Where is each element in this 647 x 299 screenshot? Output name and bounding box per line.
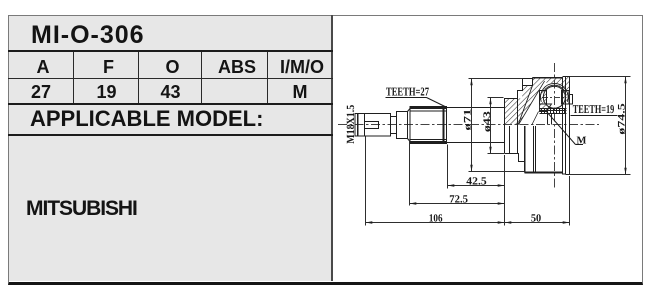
dim line 72.5 (410, 203, 505, 205)
ext line x447.5 (447, 145, 449, 189)
TEETH=27 underline (386, 97, 427, 99)
race track arc (541, 83, 569, 101)
hatch: bell back wall band and top wall (518, 78, 562, 125)
stub center hole (365, 122, 379, 129)
chamfer ring to spline top (408, 109, 411, 112)
TEETH=19 underline (571, 115, 618, 117)
ball horizontal centerline (542, 97, 567, 99)
spline end double line (443, 106, 445, 144)
bell bottom edge (525, 172, 563, 174)
dim line dia43 (490, 98, 492, 154)
hatch: flange dia43 section (504, 98, 517, 124)
svg-text:TEETH=19: TEETH=19 (573, 102, 614, 116)
ext dia74.5 bottom (570, 174, 631, 176)
dim line dia71 (471, 79, 473, 172)
dim line 106 (366, 222, 505, 224)
svg-text:72.5: 72.5 (449, 194, 468, 206)
arrows dia43 (489, 98, 491, 105)
APPLICABLE MODEL: (30, 108, 263, 130)
bell top edge (533, 77, 563, 79)
spline teeth ticks (542, 109, 565, 114)
cavity slope edge (518, 86, 532, 125)
value 43 (139, 83, 202, 101)
header I/M/O (270, 58, 334, 76)
horizontal centerline (338, 124, 599, 126)
lower exterior profile (505, 154, 525, 162)
M leader (546, 111, 576, 145)
rim ring dia74.5 (565, 77, 567, 175)
spline bore verticals (547, 114, 549, 125)
column line 2 (138, 52, 139, 103)
ball (543, 86, 565, 108)
threaded stub M18X1.5 (355, 114, 391, 137)
hatch: rim ring upper (562, 77, 569, 90)
ext dia43 top (488, 97, 504, 99)
arrows 50 (505, 221, 512, 223)
boot land dia71 (523, 79, 533, 86)
svg-text:ø71: ø71 (463, 109, 474, 131)
header O (141, 58, 204, 76)
spline section TEETH=27 thick edges (410, 106, 447, 109)
column line 1 (73, 52, 74, 103)
value 27 (8, 83, 74, 101)
table line under value row (8, 103, 333, 105)
svg-text:106: 106 (429, 213, 443, 225)
inner race lower edge (532, 112, 539, 125)
svg-text:TEETH=27: TEETH=27 (386, 85, 429, 99)
header F (76, 58, 141, 76)
ext line x569.5 (569, 176, 571, 226)
ext line x504.5 (504, 155, 506, 226)
shaft section (447, 107, 505, 109)
arrows dia71 (470, 79, 472, 86)
cage left block (540, 91, 547, 105)
flange dia43 (504, 98, 506, 154)
svg-text:M18X1.5: M18X1.5 (345, 104, 357, 143)
svg-text:M: M (577, 135, 587, 146)
left gray panel (9, 16, 331, 281)
lower groove edges (509, 126, 511, 154)
table line under title (8, 50, 333, 52)
M underline (576, 144, 584, 146)
svg-text:50: 50 (531, 213, 542, 225)
arrows 72.5 (410, 202, 417, 204)
arrows 106 (366, 221, 373, 223)
TEETH=27 leader (427, 98, 448, 108)
bell right wall (562, 78, 564, 173)
neck groove (391, 116, 397, 118)
boot lip (570, 95, 573, 105)
ext dia71 top (469, 78, 523, 80)
svg-text:42.5: 42.5 (466, 176, 487, 188)
ext line x409 (409, 140, 411, 206)
dim line 50 (505, 222, 570, 224)
thread runout line (364, 114, 366, 137)
inner race wedge (540, 104, 552, 112)
table line under header row (8, 78, 333, 79)
arrows dia74.5 (624, 77, 626, 84)
column line 4 (267, 52, 268, 103)
svg-text:ø43: ø43 (482, 111, 493, 132)
dim line 42.5 (448, 185, 505, 187)
svg-text:ø74.5: ø74.5 (617, 103, 628, 134)
cavity right slope edge (519, 81, 545, 125)
spline band TEETH=19 (540, 108, 567, 110)
MITSUBISHI (26, 198, 137, 219)
value M (268, 83, 332, 101)
divider between panels (331, 15, 333, 281)
column line 3 (201, 52, 202, 103)
ext dia43 bottom (488, 153, 505, 155)
header A (10, 58, 76, 76)
arrows 42.5 (448, 184, 455, 186)
stub end cap (357, 114, 359, 137)
ring shoulder (397, 112, 408, 139)
chamfer ring to spline bottom (408, 139, 411, 142)
ext line x365 (365, 137, 367, 226)
dim line dia74.5 (625, 77, 627, 175)
vertical centerline of ball axis (554, 63, 556, 188)
cage arc (544, 85, 565, 91)
ext dia71 bottom (469, 171, 525, 173)
value 19 (74, 83, 139, 101)
table line under APPLICABLE MODEL row (8, 134, 333, 136)
title MI-O-306 (31, 23, 145, 48)
header ABS (204, 58, 270, 76)
boot groove step (518, 79, 523, 99)
ext dia74.5 top (570, 76, 631, 78)
cage right block (562, 91, 570, 105)
